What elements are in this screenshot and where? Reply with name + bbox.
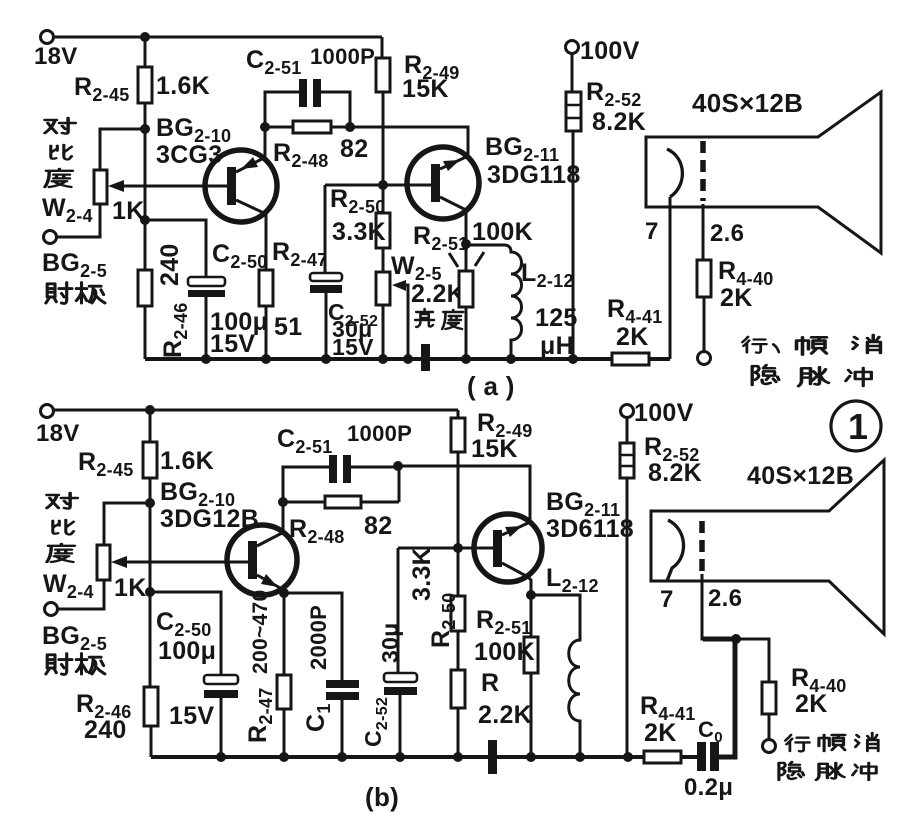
node BG2-11 base (b) xyxy=(453,543,463,553)
wire R2-45 column (b) xyxy=(149,410,152,503)
rail nodes (b) xyxy=(216,752,633,762)
svg-text:2.6: 2.6 xyxy=(708,585,742,612)
svg-text:1K: 1K xyxy=(114,574,147,602)
node BG2-11 emitter (a) xyxy=(461,239,471,249)
resistor R2-47 (b) xyxy=(244,590,291,757)
CRT grid dashed (b) xyxy=(702,521,742,612)
svg-text:100K: 100K xyxy=(474,638,535,666)
resistor R2-46 (b) xyxy=(76,687,158,744)
wire BG2-10 collector up (b) xyxy=(282,502,285,533)
svg-text:82: 82 xyxy=(340,135,368,163)
wire W2-4 bottom to terminal (b) xyxy=(58,580,104,609)
wire BG2-10 emitter down (b) xyxy=(282,590,285,593)
terminal blanking pulse (b) xyxy=(763,740,776,753)
wire node to C2-50 (a) xyxy=(145,220,206,277)
wire coupling to BG2-11 (a) xyxy=(350,127,468,158)
svg-text:100V: 100V xyxy=(580,37,640,65)
node R2-48 right (a) xyxy=(345,122,355,132)
wire thick C0 to grid (b) xyxy=(703,639,735,757)
terminal BG2-5 emitter (b) xyxy=(42,603,107,655)
svg-text:2K: 2K xyxy=(644,719,677,747)
rail nodes (a) xyxy=(201,354,578,364)
wire top rail (b) xyxy=(53,410,458,418)
svg-text:2K: 2K xyxy=(616,323,649,351)
svg-text:125: 125 xyxy=(535,304,578,332)
resistor R 2.2K (b) xyxy=(451,669,532,757)
resistor R2-46 (a) xyxy=(138,243,191,358)
potentiometer W2-5 (a) xyxy=(376,252,465,359)
terminal 18V (a) xyxy=(34,31,78,71)
capacitor C2-51 (a) xyxy=(246,44,375,127)
terminal 100V (a) xyxy=(566,37,640,65)
capacitor C0 (b) xyxy=(684,717,733,801)
svg-text:8.2K: 8.2K xyxy=(592,108,646,136)
wire R2-45 column (a) xyxy=(144,37,147,129)
wire grid lead (b) xyxy=(702,574,734,639)
terminal 100V (b) xyxy=(621,399,694,427)
CRT grid dashed (a) xyxy=(703,141,744,247)
resistor R2-50 (a) xyxy=(330,185,390,272)
wire BG2-11 emitter down (b) xyxy=(528,577,531,595)
ground rail (b) xyxy=(151,755,698,759)
resistor R2-52 (b) xyxy=(620,417,702,757)
resistor R2-48 (a) xyxy=(265,121,368,171)
svg-text:1: 1 xyxy=(848,406,868,447)
transistor BG2-10 (b) NPN xyxy=(227,525,297,595)
svg-text:7: 7 xyxy=(645,218,659,245)
svg-text:15V: 15V xyxy=(332,334,374,360)
wire node to W2-4 top (a) xyxy=(100,129,145,170)
node C2-50 tap (b) xyxy=(145,587,155,597)
node emitter (b) xyxy=(526,590,536,600)
svg-text:μH: μH xyxy=(540,332,574,360)
svg-text:82: 82 xyxy=(364,512,392,540)
node top rail / R2-45 (a) xyxy=(140,32,150,42)
capacitor C2-50 electrolytic (b) xyxy=(156,608,238,757)
resistor R2-52 (a) xyxy=(566,53,646,359)
svg-text:51: 51 xyxy=(274,313,302,341)
resistor R4-40 (a) xyxy=(697,204,774,352)
svg-text:2K: 2K xyxy=(720,284,753,312)
wire BG2-10 emitter up (a) xyxy=(264,127,267,158)
wire mid column (b) xyxy=(150,503,151,757)
svg-text:18V: 18V xyxy=(34,43,78,70)
svg-text:240: 240 xyxy=(84,716,127,744)
svg-text:15K: 15K xyxy=(402,75,449,103)
node BG2-11 base (a) xyxy=(378,180,388,190)
resistor R2-50 (b) xyxy=(408,547,465,670)
transistor BG2-10 (a) PNP xyxy=(205,150,277,222)
CRT picture tube (b) xyxy=(651,460,884,634)
ground symbol (b) xyxy=(488,740,497,774)
svg-text:(b): (b) xyxy=(365,782,399,812)
resistor R2-49 (b) xyxy=(451,409,533,548)
label contrast 对比度 (b) xyxy=(47,493,77,562)
svg-text:3.3K: 3.3K xyxy=(408,547,436,601)
inductor L2-12 (a) xyxy=(466,245,578,360)
node base divider (a) xyxy=(140,124,150,134)
capacitor C2-52 (a) xyxy=(310,273,378,360)
ground symbol (a) xyxy=(421,344,430,371)
wire top rail (a) xyxy=(53,37,382,58)
CRT cathode (b) xyxy=(667,520,684,581)
node C2-50 tap (a) xyxy=(140,215,150,225)
svg-text:1000P: 1000P xyxy=(310,44,375,69)
svg-text:2K: 2K xyxy=(795,690,828,718)
svg-text:100V: 100V xyxy=(634,399,694,427)
wire coupling line to BG2-11 collector (b) xyxy=(398,466,530,523)
wire mid column (a) xyxy=(144,129,147,359)
node emitter (b) xyxy=(279,588,289,598)
resistor R2-47 (a) xyxy=(259,238,328,359)
resistor R4-41 (a) xyxy=(607,295,663,365)
svg-text:( a ): ( a ) xyxy=(467,371,515,401)
svg-text:2.2K: 2.2K xyxy=(478,701,532,729)
terminal 18V (b) xyxy=(36,405,80,448)
svg-text:15K: 15K xyxy=(471,435,518,463)
ground rail (a) xyxy=(145,357,670,361)
label 行、帧消 (a) xyxy=(742,335,880,355)
wire cathode lead 7 (a) xyxy=(645,197,670,359)
capacitor C1 (b) xyxy=(284,593,359,757)
wire BG2-11 emitter down (a) xyxy=(465,210,468,244)
label 射极 (b) xyxy=(46,654,105,675)
circled number 1 xyxy=(831,401,881,451)
svg-text:3DG118: 3DG118 xyxy=(487,161,581,189)
wire base line (b) xyxy=(398,548,494,673)
label 射极 (a) xyxy=(46,283,105,304)
svg-text:8.2K: 8.2K xyxy=(648,459,702,487)
svg-text:3.3K: 3.3K xyxy=(332,218,386,246)
wire node to W2-4 top (b) xyxy=(104,503,150,545)
potentiometer W2-4 (b) xyxy=(43,545,249,602)
svg-text:7: 7 xyxy=(660,586,674,613)
svg-text:R: R xyxy=(481,669,499,697)
label contrast 对比度 (a) xyxy=(45,118,75,187)
wire BG2-10 collector down (a) xyxy=(265,213,268,270)
capacitor C2-52 (b) xyxy=(360,622,417,757)
capacitor C2-51 (b) xyxy=(277,421,412,502)
wire node to R4-40 (b) xyxy=(736,639,769,682)
inductor L2-12 (b) xyxy=(531,564,599,757)
transistor BG2-11 (a) NPN xyxy=(407,133,581,219)
svg-text:1K: 1K xyxy=(112,197,145,225)
svg-text:18V: 18V xyxy=(36,420,80,447)
svg-text:100μ: 100μ xyxy=(158,637,216,665)
capacitor C2-50 electrolytic (a) xyxy=(188,240,268,359)
svg-text:2.6: 2.6 xyxy=(710,220,744,247)
terminal blanking pulse (a) xyxy=(698,352,711,365)
wire node to C2-50 (b) xyxy=(150,592,221,675)
resistor R2-48 (b) xyxy=(283,466,399,547)
svg-text:2.2K: 2.2K xyxy=(411,280,465,308)
svg-text:1.6K: 1.6K xyxy=(160,447,214,475)
label 行帧消 (b) xyxy=(785,733,878,751)
node R2-48 left (a) xyxy=(260,122,270,132)
svg-text:15V: 15V xyxy=(210,330,255,358)
label 隐脉冲 (b) xyxy=(779,762,876,780)
wire W2-4 bottom to terminal (a) xyxy=(57,204,100,237)
svg-text:2000P: 2000P xyxy=(306,605,331,670)
node base divider (b) xyxy=(145,498,155,508)
svg-text:200~470: 200~470 xyxy=(249,590,272,674)
CRT picture tube (a) xyxy=(646,88,881,253)
resistor R4-41 (b) xyxy=(640,692,696,763)
potentiometer W2-4 (a) xyxy=(42,170,228,226)
svg-text:0.2μ: 0.2μ xyxy=(684,774,733,801)
resistor R2-49 (a) xyxy=(376,51,460,184)
svg-text:240: 240 xyxy=(156,243,184,286)
resistor R2-45 (a) xyxy=(74,67,210,105)
resistor R4-40 (b) xyxy=(762,664,847,740)
CRT cathode (a) xyxy=(667,149,682,197)
node R2-48 left (b) xyxy=(278,497,288,507)
svg-text:1000P: 1000P xyxy=(347,421,412,446)
node grid line (b) xyxy=(731,634,741,644)
potentiometer R2-51 (a) xyxy=(413,218,533,359)
svg-text:3D6118: 3D6118 xyxy=(546,515,634,543)
label 隐脉冲 (a) xyxy=(752,365,871,386)
svg-text:1.6K: 1.6K xyxy=(156,72,210,100)
transistor BG2-11 (b) NPN xyxy=(474,488,634,582)
label 亮度 (a) xyxy=(415,309,463,329)
svg-text:30μ: 30μ xyxy=(377,622,403,663)
svg-text:100K: 100K xyxy=(472,218,533,246)
terminal BG2-5 emitter (a) xyxy=(42,231,107,282)
svg-text:15V: 15V xyxy=(169,702,214,730)
svg-text:40S×12B: 40S×12B xyxy=(692,88,803,118)
node top rail / R2-45 (b) xyxy=(145,405,155,415)
node coupling (b) xyxy=(393,461,403,471)
wire base line (a) xyxy=(325,185,432,273)
resistor R2-51 (b) xyxy=(474,595,538,757)
svg-text:40S×12B: 40S×12B xyxy=(747,462,854,490)
resistor R2-45 (b) xyxy=(78,442,214,480)
